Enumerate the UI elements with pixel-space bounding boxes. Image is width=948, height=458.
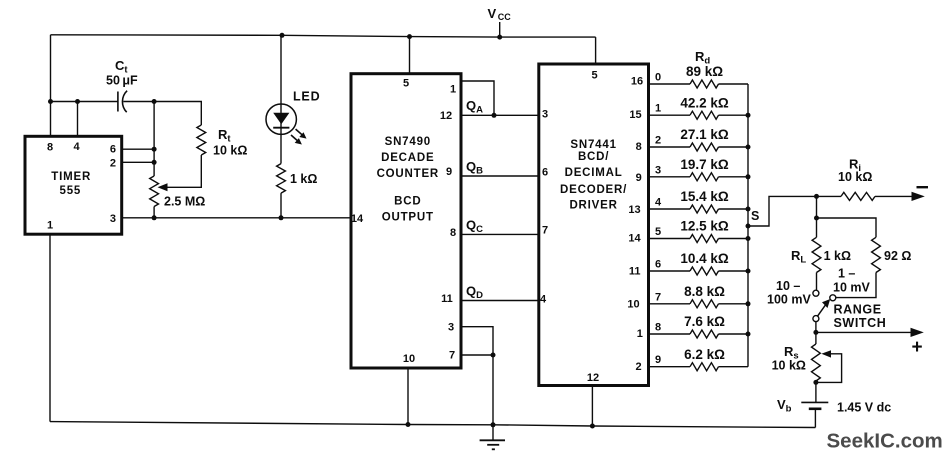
wire ladder row 5 left <box>649 238 691 240</box>
resistor ladder row 0 body 89 kΩ <box>690 80 719 88</box>
wire Ri junction down <box>816 196 818 237</box>
svg-text:SN7441: SN7441 <box>570 139 616 151</box>
node junction Ri left <box>814 194 819 199</box>
wire Vcc stub <box>499 22 501 37</box>
wire QD <box>461 300 539 302</box>
svg-text:14: 14 <box>628 233 641 245</box>
resistor 1k body <box>277 164 286 194</box>
wire pot bottom <box>153 207 155 218</box>
svg-text:2: 2 <box>636 361 642 373</box>
node junction S <box>746 224 751 229</box>
node junction bus row 8 <box>746 332 751 337</box>
svg-text:11: 11 <box>629 265 641 277</box>
svg-text:7: 7 <box>542 225 548 237</box>
svg-text:9: 9 <box>446 166 452 178</box>
wire output plus <box>816 331 914 333</box>
svg-text:0: 0 <box>655 72 661 84</box>
node junction ground <box>491 422 496 427</box>
svg-text:1 kΩ: 1 kΩ <box>824 249 851 263</box>
svg-text:9: 9 <box>655 354 661 366</box>
node junction bus row 3 <box>746 174 751 179</box>
svg-text:27.1 kΩ: 27.1 kΩ <box>680 127 729 142</box>
svg-text:50 μF: 50 μF <box>106 74 138 88</box>
svg-text:BCD: BCD <box>394 196 421 208</box>
svg-text:1: 1 <box>47 219 53 231</box>
decoder SN7441 box <box>539 64 649 386</box>
svg-text:100 mV: 100 mV <box>767 293 811 307</box>
svg-text:4: 4 <box>655 197 662 209</box>
svg-text:10: 10 <box>627 298 639 310</box>
svg-text:10 –: 10 – <box>776 279 800 293</box>
svg-text:3: 3 <box>542 108 548 120</box>
node junction pin12 <box>590 424 595 429</box>
svg-text:5: 5 <box>591 70 597 82</box>
svg-text:2: 2 <box>655 135 661 147</box>
svg-text:1 kΩ: 1 kΩ <box>290 172 317 186</box>
svg-text:3: 3 <box>655 164 661 176</box>
svg-text:11: 11 <box>441 293 453 305</box>
svg-text:S: S <box>751 209 759 223</box>
LED anode triangle <box>273 113 289 125</box>
node junction pin6 <box>152 147 157 152</box>
svg-text:8: 8 <box>636 141 642 153</box>
wire to 92ohm <box>817 218 877 237</box>
svg-text:8: 8 <box>450 227 456 239</box>
LED wire through <box>280 104 282 134</box>
svg-text:12.5 kΩ: 12.5 kΩ <box>680 219 729 234</box>
svg-text:6: 6 <box>655 259 661 271</box>
wire ladder bus <box>747 84 749 367</box>
node junction bus row 4 <box>746 207 751 212</box>
svg-text:2: 2 <box>110 157 116 169</box>
LED light arrow 1 <box>296 129 304 136</box>
potentiometer 2.5Mohm body <box>150 176 159 207</box>
svg-text:15.4 kΩ: 15.4 kΩ <box>680 189 729 204</box>
svg-text:SWITCH: SWITCH <box>834 316 887 330</box>
wire ladder row 2 right <box>719 146 749 148</box>
timer 555 box <box>25 136 122 234</box>
svg-text:7: 7 <box>449 350 455 362</box>
svg-text:15: 15 <box>629 109 641 121</box>
svg-text:7: 7 <box>655 291 661 303</box>
switch pole circle <box>813 316 819 322</box>
svg-text:10: 10 <box>403 353 415 365</box>
counter SN7490 box <box>351 74 461 368</box>
resistor ladder row 7 body 8.8 kΩ <box>690 300 719 308</box>
svg-text:5: 5 <box>655 226 661 238</box>
LED cathode bar <box>273 127 289 129</box>
node junction bus row 7 <box>746 301 751 306</box>
svg-text:1.45 V dc: 1.45 V dc <box>837 401 891 415</box>
resistor ladder row 3 body 19.7 kΩ <box>690 173 719 181</box>
resistor ladder row 8 body 7.6 kΩ <box>690 330 719 338</box>
resistor R_i body <box>841 192 875 200</box>
potentiometer wiper arrow <box>158 183 168 191</box>
svg-text:CC: CC <box>498 12 511 22</box>
svg-text:+: + <box>912 337 923 358</box>
LED light arrow 2 <box>291 135 299 142</box>
wire pin4 drop <box>77 102 79 137</box>
node junction pin2 <box>152 160 157 165</box>
svg-text:DECODER/: DECODER/ <box>560 184 627 196</box>
resistor ladder row 6 body 10.4 kΩ <box>690 267 719 275</box>
wire pin3 stub to gnd <box>461 327 493 441</box>
svg-text:LED: LED <box>293 89 320 103</box>
wire battery to ground rail <box>814 409 816 428</box>
wire ladder row 7 right <box>719 303 749 305</box>
wire switch to plus node <box>815 322 817 344</box>
svg-text:COUNTER: COUNTER <box>377 168 439 180</box>
resistor ladder row 9 body 6.2 kΩ <box>690 363 719 371</box>
node junction plus <box>813 330 818 335</box>
wire QA <box>461 114 539 116</box>
wire ladder row 0 right <box>719 83 749 85</box>
svg-text:OUTPUT: OUTPUT <box>382 211 434 223</box>
wire bottom rail <box>50 422 815 428</box>
wire pin10 drop <box>407 368 409 425</box>
wire left rail drop to pin8 <box>50 35 52 137</box>
wire ladder row 8 right <box>719 333 749 335</box>
svg-text:1: 1 <box>655 103 661 115</box>
svg-text:8.8 kΩ: 8.8 kΩ <box>684 284 725 299</box>
wire QC <box>461 233 539 235</box>
wire RL to terminal <box>816 273 818 291</box>
wire LED to resistor <box>280 134 282 163</box>
wire pin6 stub <box>122 148 154 150</box>
svg-text:8: 8 <box>47 142 53 154</box>
wire QB <box>461 175 539 177</box>
wire pin12 drop <box>591 386 593 427</box>
wire pot top column <box>153 102 155 177</box>
node junction pin4 <box>75 99 80 104</box>
ground bar 2 <box>487 444 499 446</box>
node junction bus row 5 <box>746 236 751 241</box>
node junction RL top <box>814 216 819 221</box>
resistor ladder row 1 body 42.2 kΩ <box>690 111 719 119</box>
wire pin1 stub <box>461 81 494 115</box>
svg-text:V: V <box>488 6 497 21</box>
wire 555 pin1 drop <box>49 234 51 421</box>
wire SN7441 pin5 drop <box>595 37 597 64</box>
battery V_b plate long <box>801 401 828 403</box>
node junction bus row 6 <box>746 269 751 274</box>
svg-text:4: 4 <box>540 294 547 306</box>
wire ladder row 8 left <box>649 333 691 335</box>
svg-text:42.2 kΩ: 42.2 kΩ <box>680 95 729 110</box>
wire Ri left <box>817 195 842 197</box>
svg-text:10.4 kΩ: 10.4 kΩ <box>680 251 729 266</box>
arrow output plus <box>911 328 924 337</box>
svg-text:12: 12 <box>440 110 452 122</box>
resistor R_t body <box>197 125 206 155</box>
ground bar 3 <box>492 448 495 450</box>
wire Rs wiper loop <box>816 354 842 383</box>
svg-text:DECIMAL: DECIMAL <box>565 167 623 179</box>
capacitor C_t plate right curved <box>122 91 127 113</box>
node junction QA <box>492 113 497 118</box>
svg-text:9: 9 <box>636 172 642 184</box>
svg-text:92 Ω: 92 Ω <box>884 249 911 263</box>
svg-text:16: 16 <box>631 76 643 88</box>
resistor R_s body <box>812 344 821 381</box>
svg-text:14: 14 <box>351 213 364 225</box>
svg-text:1: 1 <box>637 328 643 340</box>
svg-text:10 kΩ: 10 kΩ <box>838 170 872 184</box>
svg-text:RANGE: RANGE <box>834 303 882 317</box>
node junction LED branch <box>280 33 285 38</box>
switch arm arrowhead <box>822 299 830 308</box>
switch arm <box>818 304 827 317</box>
svg-text:TIMER: TIMER <box>51 171 91 183</box>
capacitor C_t plate left <box>117 92 119 112</box>
svg-text:10 kΩ: 10 kΩ <box>772 359 806 373</box>
resistor ladder row 5 body 12.5 kΩ <box>690 235 719 243</box>
ground bar 1 <box>480 439 505 441</box>
wire ladder row 2 left <box>649 146 691 148</box>
svg-text:3: 3 <box>110 213 116 225</box>
svg-text:5: 5 <box>403 77 409 89</box>
wire ladder row 1 right <box>719 114 749 116</box>
node junction pin3-led <box>279 215 284 220</box>
wire ladder row 4 left <box>649 208 691 210</box>
wire S to Ri <box>748 196 817 226</box>
resistor R_L body <box>812 237 821 272</box>
wire ladder row 3 right <box>719 176 749 178</box>
arrow output minus <box>912 192 925 201</box>
wire cap rail <box>51 101 118 103</box>
wire ladder row 4 right <box>719 208 749 210</box>
node junction Vcc <box>497 35 502 40</box>
svg-text:SeekIC.com: SeekIC.com <box>827 430 943 453</box>
svg-text:13: 13 <box>628 204 640 216</box>
wire top Vcc rail <box>51 35 596 37</box>
wire ladder row 9 right <box>719 366 749 368</box>
label minus sign <box>917 186 929 188</box>
wire pin3 to counter pin14 <box>122 217 351 219</box>
wire ladder row 9 left <box>649 366 691 368</box>
svg-text:7.6 kΩ: 7.6 kΩ <box>684 314 725 329</box>
svg-text:BCD/: BCD/ <box>578 151 609 163</box>
svg-text:4: 4 <box>73 141 80 153</box>
wire 1k to pin3 wire <box>280 193 282 218</box>
wire rail to LED <box>280 35 282 104</box>
wire ladder row 0 left <box>649 83 691 85</box>
node junction bus row 2 <box>746 145 751 150</box>
node junction pin10 <box>406 422 411 427</box>
svg-text:2.5 MΩ: 2.5 MΩ <box>164 195 205 209</box>
svg-text:1: 1 <box>450 83 456 95</box>
svg-text:6: 6 <box>110 143 116 155</box>
wire ladder row 5 right <box>719 238 749 240</box>
svg-text:10 mV: 10 mV <box>833 281 870 295</box>
resistor ladder row 4 body 15.4 kΩ <box>690 205 719 213</box>
node junction cap-pot <box>152 99 157 104</box>
wire 7490 pin5 drop <box>409 37 411 74</box>
wire Ri to output minus <box>875 195 915 197</box>
terminal 1-10mV circle <box>830 295 836 301</box>
battery V_b plate short <box>809 407 822 410</box>
wire pin2 stub <box>122 161 154 163</box>
Rs wiper arrow <box>821 350 831 357</box>
svg-text:19.7 kΩ: 19.7 kΩ <box>680 157 729 172</box>
wire ladder row 6 left <box>649 270 691 272</box>
node junction pin8 <box>48 99 53 104</box>
svg-text:555: 555 <box>60 185 82 197</box>
svg-text:1 –: 1 – <box>838 267 855 281</box>
wire ladder row 3 left <box>649 176 691 178</box>
node junction pin3-pot <box>152 215 157 220</box>
resistor 92ohm body <box>872 237 881 272</box>
svg-text:6: 6 <box>542 167 548 179</box>
svg-text:SN7490: SN7490 <box>385 136 431 148</box>
svg-text:3: 3 <box>448 322 454 334</box>
wire ladder row 6 right <box>719 270 749 272</box>
svg-text:DECADE: DECADE <box>381 152 434 164</box>
svg-text:6.2 kΩ: 6.2 kΩ <box>684 347 725 362</box>
node junction 7490 pin5 branch <box>407 34 412 39</box>
wire ladder row 7 left <box>649 303 691 305</box>
svg-text:DRIVER: DRIVER <box>569 200 617 212</box>
wire 92ohm to terminal <box>836 273 876 298</box>
svg-text:89 kΩ: 89 kΩ <box>686 64 723 79</box>
node junction pin7 <box>491 353 496 358</box>
node junction bus row 1 <box>746 113 751 118</box>
svg-text:12: 12 <box>587 372 599 384</box>
svg-text:8: 8 <box>655 322 661 334</box>
wire Rt bottom to pot arrow <box>166 155 201 187</box>
wire ladder row 1 left <box>649 114 691 116</box>
svg-text:10 kΩ: 10 kΩ <box>213 144 247 158</box>
terminal 10-100mV circle <box>813 290 819 296</box>
wire pin7 stub <box>461 354 493 356</box>
LED circle <box>266 104 296 134</box>
resistor ladder row 2 body 27.1 kΩ <box>690 143 719 151</box>
node junction Rs bottom <box>813 380 818 385</box>
wire Rs to battery <box>815 381 817 402</box>
wire cap to Rt corner <box>123 102 201 126</box>
